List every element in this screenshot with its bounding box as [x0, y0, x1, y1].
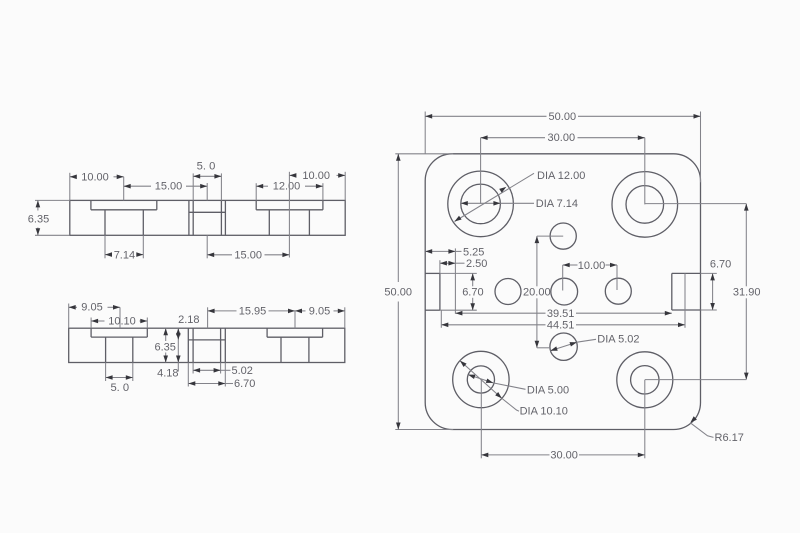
- svg-text:9.05: 9.05: [309, 305, 330, 317]
- svg-text:7.14: 7.14: [114, 249, 135, 261]
- svg-text:6.70: 6.70: [710, 259, 731, 271]
- svg-text:10.00: 10.00: [302, 170, 330, 182]
- svg-text:50.00: 50.00: [384, 287, 412, 299]
- svg-text:DIA 10.10: DIA 10.10: [520, 406, 568, 418]
- svg-text:15.00: 15.00: [155, 181, 183, 193]
- svg-text:2.18: 2.18: [178, 314, 199, 326]
- svg-text:5. 0: 5. 0: [197, 160, 216, 172]
- svg-text:DIA 12.00: DIA 12.00: [537, 170, 585, 182]
- svg-text:30.00: 30.00: [550, 449, 578, 461]
- svg-text:6.70: 6.70: [234, 378, 255, 390]
- svg-text:DIA 5.02: DIA 5.02: [597, 333, 639, 345]
- svg-text:50.00: 50.00: [549, 111, 577, 123]
- svg-text:R6.17: R6.17: [715, 432, 744, 444]
- svg-text:DIA 5.00: DIA 5.00: [527, 384, 569, 396]
- svg-text:9.05: 9.05: [81, 302, 102, 314]
- svg-text:4.18: 4.18: [157, 367, 178, 379]
- svg-text:12.00: 12.00: [273, 181, 301, 193]
- svg-text:15.95: 15.95: [239, 305, 267, 317]
- svg-text:6.35: 6.35: [28, 213, 49, 225]
- svg-text:30.00: 30.00: [548, 132, 576, 144]
- svg-text:6.70: 6.70: [462, 286, 483, 298]
- svg-text:10.00: 10.00: [81, 171, 109, 183]
- svg-text:2.50: 2.50: [466, 258, 487, 270]
- svg-text:6.35: 6.35: [154, 341, 175, 353]
- svg-text:15.00: 15.00: [234, 249, 262, 261]
- svg-text:44.51: 44.51: [547, 319, 575, 331]
- svg-text:20.00: 20.00: [523, 287, 551, 299]
- svg-text:5. 0: 5. 0: [110, 382, 129, 394]
- svg-text:5.02: 5.02: [232, 365, 253, 377]
- svg-text:39.51: 39.51: [547, 308, 575, 320]
- svg-text:31.90: 31.90: [733, 287, 761, 299]
- svg-text:5.25: 5.25: [463, 246, 484, 258]
- svg-text:10.00: 10.00: [578, 260, 606, 272]
- svg-text:10.10: 10.10: [108, 315, 136, 327]
- svg-text:DIA 7.14: DIA 7.14: [536, 198, 578, 210]
